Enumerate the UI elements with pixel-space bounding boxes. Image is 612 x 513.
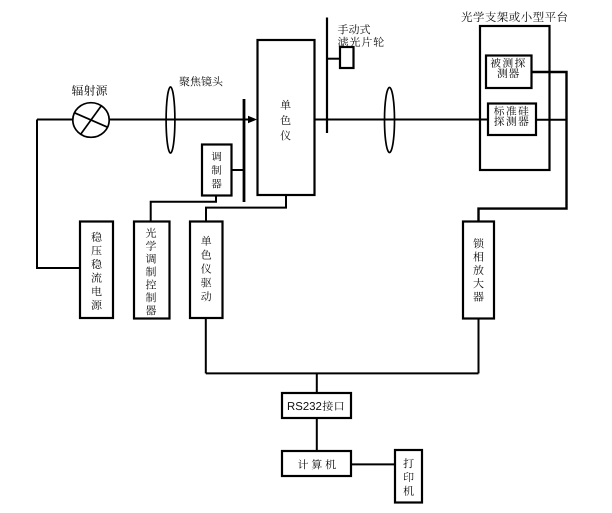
block: standard silicon detector — [488, 104, 536, 136]
block: computer — [282, 451, 351, 476]
wire: detector under test to lock-in amplifier — [479, 72, 567, 222]
label: monochromator driver 单色仪驱动 — [201, 236, 211, 302]
label: standard Si detector line2 探测器 — [494, 116, 528, 126]
label: optical modulation controller 光学调制控制器 — [146, 228, 156, 316]
label: detector under test line2 测器 — [497, 68, 519, 78]
label: power supply 稳压稳流电源 — [91, 232, 101, 310]
wire: stub from filter wheel line to filter box — [327, 58, 340, 60]
frame: optical mount / small platform — [480, 26, 550, 170]
label: modulator 调制器 — [212, 152, 222, 189]
wire: monochromator driver bottom down to RS232 bus — [205, 318, 207, 373]
block: optical modulation controller — [134, 222, 170, 319]
radiation source lamp symbol (circle with rotated cross) — [73, 103, 109, 138]
block: detector under test — [486, 56, 532, 89]
label: focusing lens 聚焦镜头 — [179, 76, 222, 86]
wire: beam from monochromator exit through filter wheel and lens to standard Si detector — [315, 119, 488, 121]
lens: focusing lens L1 — [166, 87, 175, 153]
label: detector under test line1 被测探 — [491, 58, 526, 68]
block: lock-in amplifier — [463, 222, 494, 319]
wire: beam from power loop through radiation source and focusing lens to monochromator entrance — [37, 119, 249, 121]
wire: standard Si detector output to vertical signal line — [536, 119, 567, 121]
filter wheel axis line — [326, 18, 328, 134]
wire: power supply loop (down from beam axis, right to power supply box) — [37, 120, 79, 269]
label: manual filter wheel line1 手动式 — [338, 24, 370, 34]
lens: imaging lens L2 — [385, 88, 395, 153]
wire: computer to printer — [351, 463, 395, 465]
block: modulator — [202, 145, 232, 196]
label: printer 打印机 — [403, 458, 413, 496]
block: printer — [395, 450, 422, 503]
chopper blade line (modulator wheel) — [243, 99, 246, 202]
wire: modulator to chopper blade — [232, 169, 244, 171]
wire: horizontal bus to RS232 interface — [206, 372, 479, 374]
wire: modulator bottom to optical modulation controller — [151, 196, 216, 222]
arrowhead: beam into monochromator — [248, 116, 257, 124]
label: RS232 interface RS232接口 — [288, 401, 344, 411]
wire: bus drop to RS232 interface box — [316, 373, 318, 393]
block: monochromator driver — [190, 222, 223, 319]
block: monochromator — [258, 40, 315, 195]
block: regulated voltage/current power supply — [80, 222, 113, 319]
label: lock-in amplifier 锁相放大器 — [473, 238, 483, 301]
wire: lock-in amplifier bottom down to RS232 bus — [478, 319, 480, 374]
block: RS232 interface — [282, 393, 351, 418]
wire: monochromator bottom to monochromator driver — [206, 195, 286, 222]
label: standard Si detector line1 标准硅 — [494, 106, 529, 116]
wire: RS232 interface to computer — [316, 418, 318, 451]
label: computer 计算机 — [298, 459, 336, 469]
block: manual filter wheel position — [340, 47, 354, 68]
label: manual filter wheel line2 滤光片轮 — [338, 37, 384, 47]
label: radiation source 辐射源 — [72, 85, 107, 96]
label: monochromator 单色仪 — [280, 100, 290, 141]
label: optical mount or small platform 光学支架或小型平台 — [461, 11, 567, 22]
